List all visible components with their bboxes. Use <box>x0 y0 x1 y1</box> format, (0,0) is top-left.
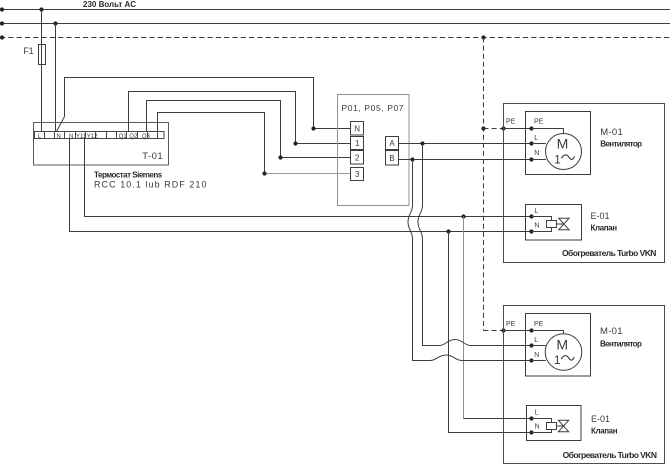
wire valve L branch into heater2 E-01 <box>464 418 532 420</box>
svg-text:RCC 10.1 lub RDF 210: RCC 10.1 lub RDF 210 <box>94 180 208 190</box>
node L terminal valve1 <box>529 214 533 218</box>
motor M-01 heater2 circle <box>545 334 582 371</box>
fan unit box M-01 heater2 <box>526 314 591 377</box>
node L terminal valve2 <box>529 416 533 420</box>
node corner above P01 1 <box>293 141 297 145</box>
svg-text:N: N <box>534 223 539 230</box>
svg-text:Клапан: Клапан <box>591 223 618 232</box>
svg-text:N: N <box>534 352 539 359</box>
svg-text:PE: PE <box>534 321 544 328</box>
svg-text:Y11: Y11 <box>76 134 87 140</box>
terminal divider 11 <box>147 132 149 139</box>
heater 1 Turbo VKN outline box <box>504 104 665 263</box>
svg-text:L: L <box>534 208 538 215</box>
svg-text:3: 3 <box>355 170 360 179</box>
terminal box A of P01 <box>386 137 399 150</box>
terminal box 1 of P01 <box>351 137 364 150</box>
node L terminal fan2 <box>529 343 533 347</box>
wire valve N feed from T-01 N to E-01 heater1 <box>70 139 532 232</box>
motor symbol tilde heater2 <box>561 356 574 360</box>
svg-text:T-01: T-01 <box>142 151 163 162</box>
node junction bus1 to F1 <box>39 7 43 11</box>
terminal divider 5 <box>85 132 87 139</box>
wire coil to valve body 1 <box>557 223 564 225</box>
wire from bus2 down to T-01 terminal N <box>55 24 57 132</box>
node corner above P01 3 <box>262 171 266 175</box>
wire fan2 L to motor <box>532 345 546 347</box>
svg-text:230 Вольт AC: 230 Вольт AC <box>83 0 136 9</box>
svg-text:2: 2 <box>355 153 360 162</box>
wire valve L branch down to heater2 (light vertical) <box>463 217 465 419</box>
valve unit box E-01 heater1 <box>526 205 582 241</box>
node PE terminal fan1 <box>529 126 533 130</box>
svg-text:Q2: Q2 <box>129 134 138 140</box>
wire Q1 of T-01 to P01 terminal 1 <box>129 92 351 144</box>
svg-text:N: N <box>57 134 61 140</box>
svg-text:Термостат Siemens: Термостат Siemens <box>94 171 163 180</box>
wire PE dashed stub into heater1 <box>484 128 504 130</box>
coil of valve2 <box>547 423 557 430</box>
terminal divider 10 <box>137 132 139 139</box>
node corner above P01 2 <box>278 155 282 159</box>
wire B branch down with flex S-curve to heater2 fan N <box>408 160 532 361</box>
svg-text:Вентилятор: Вентилятор <box>600 140 642 149</box>
node PE terminal fan2 <box>529 328 533 332</box>
wire L/N bus line 2 <box>0 23 670 25</box>
wire Q3 of T-01 to P01 terminal 3 upper run <box>158 113 265 174</box>
wire PE bus dashed line 3 <box>0 37 670 39</box>
svg-text:N: N <box>534 150 539 157</box>
motor symbol tilde heater1 <box>562 155 575 159</box>
svg-text:PE: PE <box>534 118 544 125</box>
svg-text:M: M <box>556 336 568 352</box>
wire fan1 PE to motor top <box>532 129 564 134</box>
svg-text:N: N <box>535 424 540 431</box>
svg-text:Вентилятор: Вентилятор <box>600 340 642 349</box>
connector P01 P05 P07 outline <box>338 95 410 206</box>
wire valve L feed from T-01 Y11 to E-01 heater1 <box>85 139 532 217</box>
node N terminal valve2 <box>529 430 533 434</box>
svg-text:L: L <box>535 410 539 417</box>
svg-text:B: B <box>389 154 394 163</box>
svg-text:PE: PE <box>506 118 516 125</box>
node bus2 left <box>0 21 4 25</box>
node junction PE bus to PE drop <box>481 35 485 39</box>
wire Q2 of T-01 to P01 terminal 2 <box>147 101 351 158</box>
node junction PE tee heater1 <box>481 126 485 130</box>
valve body hourglass heater1 <box>559 218 569 230</box>
node corner above P01 N <box>311 126 315 130</box>
terminal divider 7 <box>106 132 108 139</box>
valve body hourglass heater2 <box>558 420 568 432</box>
svg-text:N: N <box>354 124 360 133</box>
svg-text:1: 1 <box>554 153 561 167</box>
node junction bus2 to N <box>53 21 57 25</box>
svg-text:Q3: Q3 <box>142 134 151 140</box>
node junction A branch <box>420 141 424 145</box>
terminal strip of T-01 <box>35 132 165 139</box>
svg-text:1: 1 <box>554 353 561 367</box>
terminal divider 3 <box>64 132 66 139</box>
wire fan1 L to motor <box>532 143 546 145</box>
wire valve2 N to coil <box>532 430 552 433</box>
wire valve N branch down to heater2 E-01 <box>449 232 532 433</box>
wire valve1 N to coil <box>532 228 552 232</box>
svg-text:P01, P05, P07: P01, P05, P07 <box>342 103 405 113</box>
terminal divider 8 <box>116 132 118 139</box>
terminal divider 6 <box>95 132 97 139</box>
svg-text:PE: PE <box>506 321 516 328</box>
svg-text:M: M <box>557 136 569 152</box>
coil of valve1 <box>547 221 557 228</box>
svg-text:E-01: E-01 <box>591 211 610 221</box>
node junction valve L branch <box>461 214 465 218</box>
wire Q3 into P01 terminal 3 (light segment) <box>265 173 351 175</box>
wire PE inside heater1 to fan PE <box>504 128 532 130</box>
terminal box B of P01 <box>386 151 399 166</box>
wire A branch down with flex S-curve to heater2 fan L <box>418 144 532 346</box>
node N terminal fan2 <box>529 358 533 362</box>
terminal divider 9 <box>126 132 128 139</box>
svg-text:Клапан: Клапан <box>591 426 618 435</box>
node bus3 left <box>0 35 4 39</box>
terminal divider 12 <box>157 132 159 139</box>
thermostat T-01 outline box <box>34 123 169 166</box>
svg-text:F1: F1 <box>23 46 34 56</box>
terminal divider 1 <box>44 132 46 139</box>
wire coil to valve body 2 <box>557 425 564 427</box>
wire B of P01 to fan M-01 heater1 N <box>399 159 532 161</box>
node N terminal valve1 <box>529 229 533 233</box>
node junction valve N branch <box>446 229 450 233</box>
node bus1 left <box>0 7 4 11</box>
terminal divider 4 <box>75 132 77 139</box>
wire from bus1 through F1 down to T-01 terminal L <box>41 10 43 132</box>
svg-text:M-01: M-01 <box>600 326 623 337</box>
svg-text:A: A <box>389 139 395 148</box>
svg-text:Q1: Q1 <box>119 134 128 140</box>
svg-text:Обогреватель Turbo VKN: Обогреватель Turbo VKN <box>563 450 657 460</box>
svg-text:L: L <box>534 337 538 344</box>
svg-text:E-01: E-01 <box>591 414 610 424</box>
wire fan2 PE to motor top <box>532 331 564 334</box>
fan unit box M-01 heater1 <box>526 112 591 175</box>
wire A of P01 to fan M-01 heater1 L <box>399 143 532 145</box>
svg-text:Обогреватель Turbo VKN: Обогреватель Turbo VKN <box>562 248 656 258</box>
terminal box 2 of P01 <box>351 151 364 165</box>
wire valve2 L to coil <box>532 419 552 423</box>
svg-text:M-01: M-01 <box>600 127 623 138</box>
heater 2 Turbo VKN outline box <box>504 306 665 464</box>
terminal box 3 of P01 <box>351 168 364 181</box>
terminal divider 2 <box>54 132 56 139</box>
motor M-01 heater1 circle <box>546 134 582 170</box>
wire valve1 L to coil <box>532 217 552 221</box>
node N terminal fan1 <box>529 157 533 161</box>
terminal box N of P01 <box>351 122 364 136</box>
wire PE dashed stub into heater2 <box>484 330 504 332</box>
svg-text:Y12: Y12 <box>87 134 98 140</box>
node junction B branch <box>410 157 414 161</box>
node PE on heater1 edge <box>501 126 505 130</box>
wire neutral N of T-01 to P01 terminal N (diagonal riser and top run) <box>57 78 351 132</box>
fuse F1 <box>39 45 46 65</box>
wire PE inside heater2 to fan PE <box>504 330 532 332</box>
valve unit box E-01 heater2 <box>527 406 582 441</box>
node L terminal fan1 <box>529 141 533 145</box>
svg-text:L: L <box>534 135 538 142</box>
wire fan1 N to motor <box>532 159 547 161</box>
wire fan2 N to motor <box>532 360 546 362</box>
node PE on heater2 edge <box>501 328 505 332</box>
svg-text:1: 1 <box>355 139 360 148</box>
wire PE dashed drop from bus3 <box>483 38 485 331</box>
wire L1 bus 230V line 1 <box>0 9 670 11</box>
